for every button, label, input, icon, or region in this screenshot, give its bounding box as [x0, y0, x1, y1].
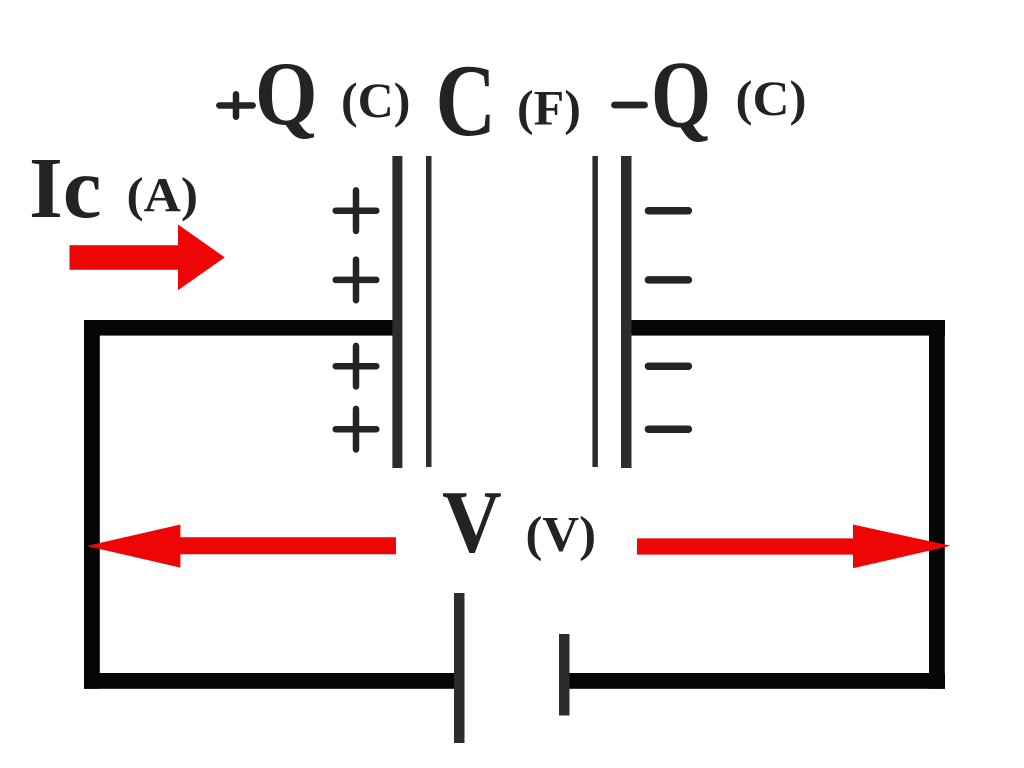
plus charge 3 — [336, 346, 377, 387]
minus charge 3 — [648, 362, 688, 370]
svg-text:V: V — [442, 473, 502, 572]
minus charge 1 — [648, 207, 688, 215]
svg-text:C: C — [436, 44, 497, 158]
wire bottom-left segment — [84, 673, 464, 689]
wire left segment — [84, 320, 100, 689]
svg-text:(C): (C) — [341, 72, 410, 128]
plus charge 1 — [336, 190, 377, 231]
voltage arrow right — [637, 525, 951, 569]
label -Q minus sign — [614, 102, 644, 109]
plus charge 4 — [336, 409, 377, 450]
svg-text:Q: Q — [651, 42, 711, 148]
wire right segment — [929, 320, 945, 689]
capacitor C right inner line — [592, 156, 598, 467]
svg-text:(A): (A) — [127, 169, 199, 222]
svg-text:Ic: Ic — [29, 139, 101, 236]
current arrow Ic — [70, 225, 225, 291]
capacitor C left plate — [392, 156, 402, 468]
wire top-right segment — [621, 320, 945, 336]
plus charge 2 — [336, 260, 377, 301]
battery long plate (+) — [454, 593, 465, 743]
capacitor C right plate — [621, 156, 632, 468]
svg-text:(C): (C) — [736, 70, 807, 126]
wire bottom-right segment — [559, 673, 945, 689]
voltage arrow left — [87, 525, 396, 568]
battery short plate (-) — [559, 634, 570, 716]
svg-text:(F): (F) — [517, 80, 581, 136]
label +Q plus sign — [219, 94, 252, 116]
minus charge 2 — [648, 276, 688, 284]
capacitor C left inner line — [426, 156, 432, 467]
svg-text:Q: Q — [255, 43, 318, 144]
wire top-left segment — [84, 320, 402, 336]
svg-text:(V): (V) — [526, 506, 597, 562]
minus charge 4 — [648, 425, 688, 433]
